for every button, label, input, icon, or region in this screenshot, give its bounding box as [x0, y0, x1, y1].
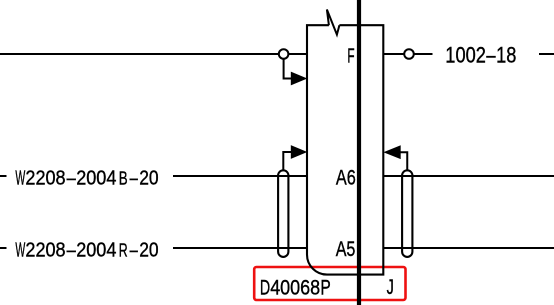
arrow into connector (F-row) — [291, 72, 308, 86]
wire A5-row left stub — [0, 247, 7, 249]
terminal circle (F-row right) — [404, 49, 414, 59]
svg-text:40068: 40068 — [270, 276, 320, 299]
svg-text:20: 20 — [139, 167, 158, 190]
leader from terminal to arrow (F-row) — [284, 59, 292, 79]
bulkhead/panel thick line — [357, 0, 361, 305]
arrow into connector (A6 right) — [383, 145, 400, 159]
svg-text:A6: A6 — [336, 166, 356, 189]
svg-text:A5: A5 — [336, 238, 356, 261]
svg-text:–: – — [67, 238, 77, 261]
terminal circle (F-row left) — [279, 49, 289, 59]
svg-text:–: – — [130, 167, 139, 190]
leader from splice to arrow (A6 left) — [283, 152, 292, 170]
wire F-row left — [0, 53, 307, 55]
connector body outline (rounded bottom-left corner, break at top) — [307, 25, 383, 274]
svg-text:J: J — [387, 276, 394, 299]
svg-text:B: B — [119, 168, 128, 189]
wire label W2208-2004B-20 — [15, 167, 158, 190]
svg-text:2004: 2004 — [76, 167, 116, 190]
arrow into connector (A6 left) — [291, 145, 308, 159]
connector designator D40068P — [260, 276, 331, 299]
svg-text:2208: 2208 — [25, 238, 65, 261]
wire A6-row right — [383, 175, 554, 177]
wire label 1002-18 — [445, 43, 516, 68]
wire A5-row right — [383, 247, 554, 249]
svg-text:D: D — [260, 276, 270, 299]
svg-text:20: 20 — [139, 238, 158, 261]
wire F-row right (box to terminal) — [383, 53, 432, 55]
wire A5-row left — [173, 247, 307, 249]
svg-text:W: W — [15, 167, 25, 190]
wire A6-row left stub — [0, 175, 7, 177]
splice/ring left (stadium) — [278, 170, 288, 257]
svg-text:R: R — [119, 239, 128, 260]
svg-text:18: 18 — [496, 43, 516, 68]
wire F-row far right stub — [539, 53, 554, 55]
svg-text:–: – — [130, 238, 139, 261]
svg-text:2208: 2208 — [25, 167, 65, 190]
svg-text:–: – — [67, 167, 77, 190]
svg-text:2004: 2004 — [76, 238, 116, 261]
splice/ring right (stadium) — [402, 170, 412, 257]
svg-text:1002: 1002 — [445, 43, 486, 68]
wire A6-row left — [173, 175, 307, 177]
svg-text:–: – — [486, 43, 496, 68]
leader from splice to arrow (A6 right) — [399, 152, 407, 170]
break (zigzag) symbol on connector top edge — [327, 10, 340, 35]
highlight box (red) around D40068P J — [254, 267, 405, 300]
svg-text:W: W — [15, 238, 25, 261]
svg-text:P: P — [320, 276, 330, 299]
wire label W2208-2004R-20 — [15, 238, 158, 261]
svg-text:F: F — [347, 45, 354, 68]
